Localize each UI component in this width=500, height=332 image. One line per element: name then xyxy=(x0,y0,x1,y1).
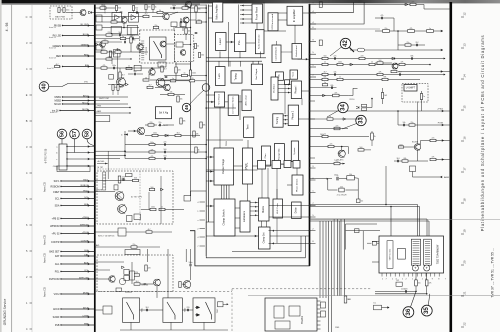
svg-text:100n: 100n xyxy=(116,49,120,51)
svg-text:68k: 68k xyxy=(324,77,327,79)
svg-text:Chro: Chro xyxy=(264,153,267,159)
wire drop 391 xyxy=(390,207,392,237)
wire cs left in xyxy=(206,205,214,207)
switch lever 3 xyxy=(206,302,212,320)
svg-text:VERT LOGIC: VERT LOGIC xyxy=(390,248,392,260)
wire 58 bend xyxy=(87,139,95,146)
wire pd top xyxy=(296,168,298,175)
capacitor Cj0 xyxy=(190,264,191,267)
wire row e xyxy=(125,149,207,153)
opamp plus 2 xyxy=(424,265,430,271)
wire y58 row xyxy=(310,58,446,60)
capacitor C107 xyxy=(165,76,168,77)
svg-text:BC858: BC858 xyxy=(412,142,419,144)
svg-text:3k3: 3k3 xyxy=(118,8,121,10)
svg-text:36: 36 xyxy=(405,308,412,315)
wire lp arrow xyxy=(278,88,291,90)
hatch th1 xyxy=(116,193,123,200)
vfi sub1 xyxy=(411,239,420,265)
connector 40 xyxy=(39,82,49,92)
wire rl2 down xyxy=(426,286,428,294)
wire vert 372 xyxy=(371,131,373,133)
svg-text:Test: Test xyxy=(246,124,250,129)
diode D440 xyxy=(343,118,346,121)
capacitor C133 xyxy=(134,73,135,76)
wire RUBON xyxy=(50,185,94,189)
component DL xyxy=(374,305,390,310)
resistor R213 xyxy=(193,131,195,137)
svg-text:10k: 10k xyxy=(180,99,183,101)
svg-text:13: 13 xyxy=(463,43,467,47)
wire vert 149 xyxy=(148,192,150,210)
dashed option box xyxy=(50,6,72,19)
svg-text:AUL: AUL xyxy=(55,263,60,266)
wire r150 bend xyxy=(348,88,357,95)
svg-text:VIOU: VIOU xyxy=(54,293,60,296)
left grid tick xyxy=(30,250,33,252)
resistor R112 xyxy=(143,15,149,17)
wire a17 xyxy=(191,4,207,6)
wire y64 row xyxy=(310,64,431,66)
svg-text:22n: 22n xyxy=(334,56,337,58)
wire i230 xyxy=(346,230,381,232)
resistor R204 xyxy=(148,124,154,126)
svg-text:ATLN: ATLN xyxy=(83,306,89,309)
wire drops above bus xyxy=(219,52,221,58)
wire vert 394 xyxy=(393,18,395,31)
wire row e2 xyxy=(95,154,126,156)
svg-text:POL: POL xyxy=(55,271,60,274)
resistor Rj3 xyxy=(145,265,147,271)
small box e5 xyxy=(114,185,118,190)
wire h mid row3 xyxy=(95,246,160,248)
resistor R401 xyxy=(410,3,416,5)
resistor R133 xyxy=(185,28,187,34)
connector strip BU05 xyxy=(59,144,67,170)
wire a1 xyxy=(145,10,147,13)
wire connector pin xyxy=(56,151,95,154)
svg-text:HUE Contr.: HUE Contr. xyxy=(276,203,279,214)
resistor R147 xyxy=(132,6,134,11)
small box K1 xyxy=(158,62,166,67)
svg-text:Tuning: Tuning xyxy=(236,73,238,81)
wire mid band rows xyxy=(310,95,349,97)
svg-text:from CD: from CD xyxy=(43,287,47,297)
wire h y52 xyxy=(95,51,148,53)
wire a6 xyxy=(95,41,102,43)
op amp box 1 xyxy=(112,13,122,23)
wire y80 xyxy=(150,79,191,81)
wire y119 right xyxy=(310,118,361,120)
svg-text:220: 220 xyxy=(108,32,111,34)
svg-text:MUTE: MUTE xyxy=(82,109,89,111)
svg-text:47k: 47k xyxy=(432,157,435,159)
resistor R111 xyxy=(130,37,132,43)
svg-text:560: 560 xyxy=(360,147,363,149)
wire clampset out xyxy=(270,235,310,237)
svg-text:20: 20 xyxy=(463,260,467,264)
capacitor C106 xyxy=(113,67,114,70)
svg-text:560: 560 xyxy=(134,71,137,73)
diode D201 xyxy=(165,134,168,137)
wire hbrl up xyxy=(276,41,278,45)
wire f1 xyxy=(206,101,215,103)
wire f11 xyxy=(239,95,241,120)
left grid tick xyxy=(30,68,33,70)
resistor R605 xyxy=(63,8,65,13)
svg-text:1k: 1k xyxy=(197,46,199,48)
transistor T103 xyxy=(163,13,169,19)
component box tr2 xyxy=(319,40,322,46)
svg-text:Tuning: Tuning xyxy=(276,116,279,124)
svg-text:3k3: 3k3 xyxy=(136,281,139,283)
svg-text:68k: 68k xyxy=(411,56,414,58)
wire a2 xyxy=(195,5,197,7)
svg-text:22n: 22n xyxy=(148,7,151,9)
svg-text:Luminance: Luminance xyxy=(244,210,246,222)
wire j sw links xyxy=(140,309,163,311)
wire a20 xyxy=(111,52,113,54)
svg-text:22n: 22n xyxy=(336,126,339,128)
svg-text:1k: 1k xyxy=(374,136,376,138)
svg-text:68k: 68k xyxy=(404,158,407,160)
svg-text:40: 40 xyxy=(41,83,47,89)
resistor R202 xyxy=(168,93,174,95)
wire vertical bus 206 xyxy=(205,5,207,257)
block tiny f1 xyxy=(285,80,290,85)
capacitor C411 xyxy=(381,17,382,20)
wire vert 386 xyxy=(385,166,387,205)
svg-text:1n: 1n xyxy=(184,73,186,75)
vfi left stub 2 xyxy=(372,261,379,263)
mini box a26 xyxy=(111,26,121,33)
svg-text:220: 220 xyxy=(178,70,181,72)
small box i12 xyxy=(410,166,416,172)
wire y79 row xyxy=(310,79,421,81)
resistor R130 xyxy=(145,5,147,10)
wire j6 xyxy=(156,286,158,298)
wire y125 xyxy=(145,124,148,126)
svg-text:100n: 100n xyxy=(112,65,116,67)
wire y163 row xyxy=(310,163,346,165)
wire ab3 xyxy=(95,112,130,114)
IC switch inner box xyxy=(150,37,167,60)
vfi center small box xyxy=(398,248,406,259)
wire y125 pow xyxy=(398,124,451,126)
svg-text:34: 34 xyxy=(340,104,346,111)
svg-text:220: 220 xyxy=(108,56,111,58)
wire y104 ext xyxy=(95,103,128,105)
resistor R141 xyxy=(198,53,200,58)
transistor T144 xyxy=(185,1,191,7)
block control divider xyxy=(272,45,281,63)
resistor R433 xyxy=(322,135,328,137)
block noise detector xyxy=(255,30,264,54)
wire SDA xyxy=(55,203,95,208)
wire R101 xyxy=(95,7,100,9)
right grid ruler ticks xyxy=(461,17,464,327)
svg-text:47k: 47k xyxy=(103,65,106,67)
IC outline corner 2 xyxy=(206,222,305,258)
pin stub xyxy=(309,2,316,5)
wire r112 xyxy=(95,16,143,18)
resistor R437 xyxy=(371,133,374,140)
svg-text:1n: 1n xyxy=(136,10,138,12)
wire FRB xyxy=(55,323,95,327)
wire below boxes xyxy=(130,322,132,330)
connector 56 xyxy=(57,129,67,139)
svg-text:22n: 22n xyxy=(407,42,410,44)
svg-text:10k: 10k xyxy=(349,174,352,176)
svg-text:2k2: 2k2 xyxy=(399,72,402,74)
wire cd vo xyxy=(281,51,292,53)
wire BLK xyxy=(49,250,94,254)
svg-text:Vert Output: Vert Output xyxy=(255,68,258,79)
svg-text:1n: 1n xyxy=(329,116,331,118)
wire vertical 228 xyxy=(228,22,230,67)
svg-text:4k7: 4k7 xyxy=(324,72,327,74)
svg-text:FRB: FRB xyxy=(84,323,89,325)
pin stub g xyxy=(197,246,205,248)
wire L outline vert xyxy=(345,224,347,250)
dot mid group xyxy=(371,98,373,100)
wire t103 a xyxy=(152,16,163,18)
capacitor C130 xyxy=(173,7,174,10)
wire rl1 down xyxy=(415,286,417,292)
wire y161 xyxy=(394,160,402,162)
connector comb xyxy=(103,172,106,190)
svg-text:Lum: Lum xyxy=(217,74,221,79)
wire a18 xyxy=(195,21,197,23)
svg-text:SHPCOM: SHPCOM xyxy=(79,277,89,279)
svg-text:100n: 100n xyxy=(150,142,154,144)
wire h y68 xyxy=(95,67,160,69)
svg-text:1n: 1n xyxy=(122,36,124,38)
transistor T421 xyxy=(414,144,420,150)
wire i_in xyxy=(310,178,333,180)
svg-text:from 53: from 53 xyxy=(49,58,57,60)
transistor T140 xyxy=(180,50,186,56)
transistor Tj3 xyxy=(109,276,115,282)
wire clampset row 1 xyxy=(269,230,311,232)
svg-text:PK22: PK22 xyxy=(83,190,89,192)
wire os in1 xyxy=(206,156,214,158)
wire achg xyxy=(97,163,108,165)
block VCO sound xyxy=(268,13,278,31)
wire matrix in xyxy=(250,206,259,208)
wire c103 xyxy=(180,18,182,21)
capacitor Cj2 xyxy=(187,309,188,312)
wire SW 1 xyxy=(54,179,95,183)
svg-text:220: 220 xyxy=(148,268,151,270)
block phase 1 xyxy=(291,81,301,99)
wire f9 xyxy=(206,139,243,141)
capacitor C140 xyxy=(132,37,133,40)
svg-text:22n: 22n xyxy=(432,138,435,140)
svg-text:RED: RED xyxy=(84,54,89,56)
pin stub xyxy=(309,65,316,68)
svg-text:AVC7: AVC7 xyxy=(83,94,89,97)
wire g171 xyxy=(266,164,273,166)
diode arrows box3 xyxy=(195,306,200,316)
capacitor Cj1 xyxy=(146,309,147,312)
wire matrix in xyxy=(250,210,259,212)
svg-text:10k: 10k xyxy=(403,122,406,124)
transistor T601 xyxy=(80,10,86,16)
svg-text:100n: 100n xyxy=(172,5,176,7)
component D8 xyxy=(372,241,376,245)
svg-text:Control Divider: Control Divider xyxy=(275,47,278,61)
svg-text:M 787: M 787 xyxy=(98,167,104,169)
resistor R143 xyxy=(126,67,132,69)
resistor R410 xyxy=(383,30,390,33)
svg-text:1k: 1k xyxy=(198,150,200,152)
wire top edge comps xyxy=(310,87,337,89)
resistor R142 xyxy=(109,51,111,57)
svg-text:SAWF: SAWF xyxy=(53,316,60,319)
transistor TH2 xyxy=(118,205,127,214)
svg-text:+PB3: +PB3 xyxy=(96,105,102,107)
resistor R119 xyxy=(115,51,121,53)
wire os in3 xyxy=(206,180,214,182)
crt inner 3 xyxy=(275,321,290,329)
arrow j4 xyxy=(223,303,229,305)
small box a13 xyxy=(176,42,183,47)
diode D403 xyxy=(350,63,353,66)
pin stub g xyxy=(197,229,205,231)
wire y62 xyxy=(175,63,191,65)
wire cs left in2 xyxy=(206,221,214,223)
block PLL xyxy=(234,34,245,52)
diode DH0 xyxy=(161,188,164,191)
svg-text:100n: 100n xyxy=(66,10,70,12)
svg-text:BLUE: BLUE xyxy=(83,34,89,36)
wire r202 xyxy=(160,94,168,96)
wire b in xyxy=(124,134,128,136)
svg-text:1k: 1k xyxy=(155,7,157,9)
svg-text:1n: 1n xyxy=(429,28,431,30)
svg-text:560: 560 xyxy=(201,55,204,57)
wire h y30 xyxy=(102,27,139,29)
svg-text:SW 1: SW 1 xyxy=(83,179,89,181)
wire t431 xyxy=(341,147,343,151)
resistor R427 xyxy=(430,158,436,160)
block system xyxy=(291,141,298,162)
wire drop 427 xyxy=(426,219,428,236)
wire connector pin xyxy=(56,158,94,161)
wire a11 xyxy=(148,74,150,79)
wire r401 to edge xyxy=(416,4,424,6)
wire pwl down xyxy=(247,184,249,201)
svg-text:560: 560 xyxy=(379,60,382,62)
block small right xyxy=(262,146,271,166)
svg-text:2k2: 2k2 xyxy=(145,14,148,16)
svg-text:56: 56 xyxy=(59,131,65,137)
wire hue vertical long xyxy=(276,169,278,200)
switch lever 2 xyxy=(167,302,175,320)
svg-text:220: 220 xyxy=(191,78,194,80)
wire h0 xyxy=(95,180,133,182)
pointer 36 xyxy=(411,291,417,307)
wire t202 in xyxy=(128,130,137,132)
component pill tr3 xyxy=(358,48,365,52)
svg-text:560: 560 xyxy=(164,149,167,151)
svg-text:21: 21 xyxy=(463,291,467,295)
IC outline corner 3 xyxy=(190,231,310,266)
wire clampset in xyxy=(206,235,258,237)
resistor R402b xyxy=(359,57,365,59)
pin stub d2 xyxy=(310,118,316,120)
svg-text:Output Stage: Output Stage xyxy=(221,158,225,174)
svg-text:B: B xyxy=(26,119,28,123)
svg-text:47k: 47k xyxy=(381,15,384,17)
svg-text:D2: D2 xyxy=(361,201,363,203)
dashed vertical right of module xyxy=(231,289,233,332)
MSP cluster xyxy=(95,306,112,314)
svg-text:47k: 47k xyxy=(113,19,116,21)
vertical frame IC box xyxy=(379,236,444,273)
vfi pins bottom xyxy=(382,273,439,277)
wire top right rail xyxy=(316,4,411,6)
wire drop 429 xyxy=(428,221,430,236)
svg-text:100n: 100n xyxy=(151,207,155,209)
capacitor C403b xyxy=(399,73,400,76)
crt inner 1 xyxy=(274,306,284,318)
small box k3 xyxy=(321,311,326,317)
svg-text:+PB 02: +PB 02 xyxy=(52,218,61,221)
svg-text:1n: 1n xyxy=(124,39,126,41)
block matrix xyxy=(259,198,270,221)
component box mid H xyxy=(118,228,126,236)
resistor R214 xyxy=(200,122,202,128)
IC outline top xyxy=(264,30,286,32)
vfi left stub 1 xyxy=(372,241,379,243)
wire g167 xyxy=(206,169,257,171)
wire t421 base xyxy=(398,146,414,148)
wire y100 ext xyxy=(95,100,120,102)
wire r422 xyxy=(382,88,384,93)
resistor R151 xyxy=(189,80,195,82)
wire y135 row xyxy=(145,135,200,137)
wire pr arrow xyxy=(240,18,252,20)
wire a31 row xyxy=(160,80,206,82)
wire L outline top xyxy=(346,223,378,225)
pin stub xyxy=(309,75,316,78)
svg-text:+PB02: +PB02 xyxy=(82,217,89,219)
svg-text:MCLD: MCLD xyxy=(82,102,89,104)
svg-text:100n: 100n xyxy=(338,62,342,64)
wire f4 xyxy=(299,118,310,120)
svg-text:68k: 68k xyxy=(183,121,186,123)
bus line right PCB edge xyxy=(449,2,452,332)
wire y97 ext xyxy=(95,96,128,98)
resistor RH4 xyxy=(131,246,137,248)
IC outline corner 1 xyxy=(232,236,301,252)
ic h small 2 xyxy=(134,214,141,220)
vfi left strip xyxy=(387,241,393,269)
wire a8 xyxy=(95,58,106,60)
svg-text:Laser: Laser xyxy=(218,38,222,45)
svg-text:Sel X Alg: Sel X Alg xyxy=(159,112,169,115)
capacitor C103 xyxy=(180,21,181,24)
wire ushift xyxy=(421,91,423,94)
svg-text:22n: 22n xyxy=(159,122,162,124)
switch lever xyxy=(154,41,162,58)
wire CONTR xyxy=(51,240,95,244)
svg-text:220: 220 xyxy=(135,272,138,274)
resistor R432 xyxy=(334,127,340,130)
svg-text:57: 57 xyxy=(72,131,78,137)
